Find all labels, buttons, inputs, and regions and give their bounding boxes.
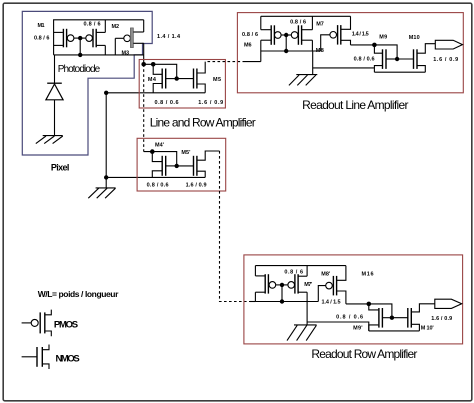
pixel box xyxy=(22,11,152,155)
svg-text:M4: M4 xyxy=(148,77,157,83)
node M9 in xyxy=(372,43,377,48)
svg-text:0.8 / 6: 0.8 / 6 xyxy=(290,19,306,25)
svg-text:1.6 / 0.9: 1.6 / 0.9 xyxy=(433,57,458,63)
row amp left vertical xyxy=(254,266,256,276)
node row xyxy=(104,175,108,179)
svg-text:M2: M2 xyxy=(112,24,120,30)
svg-text:M6: M6 xyxy=(244,43,252,49)
svg-text:M7': M7' xyxy=(304,282,313,288)
transistor M9r xyxy=(369,304,392,331)
box line-row amp stage1 xyxy=(139,60,225,109)
svg-text:Photodiode: Photodiode xyxy=(58,64,101,75)
svg-text:M4': M4' xyxy=(155,143,165,149)
line amp top rail xyxy=(261,15,351,17)
node gates M1M2 xyxy=(78,36,82,57)
ground line amp xyxy=(289,51,317,85)
wire col down xyxy=(105,93,107,178)
return wire row xyxy=(307,322,369,331)
svg-text:0.8 / 6: 0.8 / 6 xyxy=(242,32,258,38)
svg-text:M 10': M 10' xyxy=(421,326,435,332)
dashed net stage1 out to line amp xyxy=(208,61,244,63)
svg-text:M5': M5' xyxy=(181,150,191,156)
wire M9r gate rail xyxy=(369,304,392,318)
row amp bottom rail xyxy=(255,301,318,303)
stage2 nodes xyxy=(150,149,179,168)
svg-text:M8: M8 xyxy=(316,48,324,54)
follower bottom rail la xyxy=(374,71,425,73)
transistor M4' xyxy=(152,152,176,178)
svg-text:Readout Row Amplifier: Readout Row Amplifier xyxy=(311,347,417,361)
svg-text:1.6 / 0.9: 1.6 / 0.9 xyxy=(198,100,223,106)
output arrow line amp xyxy=(435,40,462,49)
row amp top rail xyxy=(255,265,346,267)
svg-text:0.8 / 6: 0.8 / 6 xyxy=(34,35,49,41)
wire to ground2 xyxy=(105,177,107,188)
svg-text:1.6 / 0.9: 1.6 / 0.9 xyxy=(431,316,452,322)
line amp left vertical xyxy=(260,16,262,29)
svg-text:Pixel: Pixel xyxy=(51,163,70,173)
transistor M5' xyxy=(177,151,220,177)
svg-text:Readout Line Amplifier: Readout Line Amplifier xyxy=(302,98,408,112)
stage1 nodes xyxy=(141,62,179,81)
svg-text:0.8 / 0.6: 0.8 / 0.6 xyxy=(147,182,169,188)
node col xyxy=(104,91,108,95)
node M9M10 gates xyxy=(395,57,399,61)
transistor M1 xyxy=(54,29,81,48)
transistor M6r xyxy=(255,274,282,293)
node gates M6M7 xyxy=(284,33,288,53)
wire M9 gate rail xyxy=(374,45,397,59)
line amp bottom rail xyxy=(261,50,321,52)
svg-text:M3: M3 xyxy=(122,51,130,57)
ground pixel column xyxy=(88,188,115,198)
ground pixel photodiode xyxy=(36,136,63,144)
pixel inner rail wires xyxy=(54,20,144,55)
svg-text:0.8 / 0.6: 0.8 / 0.6 xyxy=(336,314,363,320)
svg-text:M9': M9' xyxy=(353,326,363,332)
wire gate node down la xyxy=(285,35,287,51)
svg-text:1.4 / 1.5: 1.4 / 1.5 xyxy=(352,32,369,38)
transistor M7 xyxy=(286,16,312,51)
svg-text:NMOS: NMOS xyxy=(56,354,80,365)
node M9rM10r gates xyxy=(390,316,394,320)
box readout line amplifier xyxy=(237,13,463,93)
svg-text:Line and Row Amplifier: Line and Row Amplifier xyxy=(150,116,256,130)
wire col rail1 xyxy=(106,92,205,94)
svg-text:M5: M5 xyxy=(213,77,221,83)
svg-text:M16: M16 xyxy=(362,272,374,278)
svg-text:0.8 / 6: 0.8 / 6 xyxy=(284,269,303,275)
stage2 input rail xyxy=(144,152,177,166)
transistor M5 xyxy=(177,62,206,93)
svg-text:1.6 / 0.9: 1.6 / 0.9 xyxy=(186,182,207,188)
svg-text:M8': M8' xyxy=(321,272,331,278)
svg-text:M10: M10 xyxy=(409,35,420,41)
node gates row pair xyxy=(280,283,284,304)
transistor M2 xyxy=(80,20,105,55)
wire gate node down row xyxy=(281,285,283,302)
transistor M8r xyxy=(318,266,346,304)
wire M8r out xyxy=(346,303,369,305)
transistor M7r xyxy=(282,266,307,302)
transistor M9 xyxy=(374,45,397,72)
wire row rail2 xyxy=(106,176,205,178)
transistor M6 xyxy=(261,25,286,45)
svg-text:PMOS: PMOS xyxy=(54,320,78,331)
svg-text:M9: M9 xyxy=(379,34,387,40)
svg-text:0.8 / 0.6: 0.8 / 0.6 xyxy=(155,100,179,106)
transistor M4 xyxy=(153,64,177,93)
stage1 input rail xyxy=(144,64,177,78)
output arrow row amp xyxy=(435,299,462,308)
follower bottom rail row xyxy=(369,330,420,332)
row amp input stub xyxy=(250,301,255,303)
svg-text:M1: M1 xyxy=(38,23,45,29)
line amp input stub xyxy=(243,61,261,63)
transistor M8 xyxy=(321,16,351,51)
dashed net stage2 out to row amp xyxy=(220,151,251,302)
dashed net M3 to stages xyxy=(143,64,145,151)
legend NMOS symbol xyxy=(22,345,49,370)
transistor M10r xyxy=(392,304,435,331)
legend PMOS symbol xyxy=(22,310,52,337)
photodiode D1 xyxy=(46,55,63,136)
box readout row amplifier xyxy=(244,255,463,344)
ground row amp xyxy=(287,302,317,341)
svg-text:W/L= poids / longueur: W/L= poids / longueur xyxy=(38,289,119,299)
svg-text:1.4 / 1.4: 1.4 / 1.4 xyxy=(157,34,181,40)
svg-text:0.8 / 6: 0.8 / 6 xyxy=(84,22,101,28)
node M9r in xyxy=(367,302,372,307)
transistor M10 xyxy=(397,44,435,72)
box line-row amp stage2 xyxy=(137,138,226,191)
wire M8 out xyxy=(351,44,375,46)
svg-text:1.4 / 1.5: 1.4 / 1.5 xyxy=(322,300,341,306)
svg-text:M7: M7 xyxy=(316,22,324,28)
return wire la xyxy=(313,67,375,69)
wire gate node down xyxy=(79,38,81,55)
svg-text:0.8 / 0.6: 0.8 / 0.6 xyxy=(354,56,375,62)
transistor M3 xyxy=(115,20,143,65)
